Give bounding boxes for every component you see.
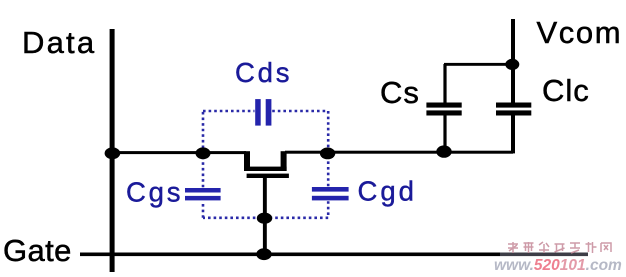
capacitor Cgs (plates)	[185, 188, 221, 200]
svg-text:Cds: Cds	[235, 57, 292, 88]
wire: Vcom vertical lead	[511, 19, 515, 153]
svg-text:Vcom: Vcom	[537, 15, 623, 50]
capacitor Cds (plates)	[255, 99, 271, 126]
wire: Data bus line (vertical)	[110, 29, 115, 272]
capacitor Cgd (plates)	[312, 187, 349, 200]
svg-text:Cs: Cs	[380, 75, 420, 110]
wire: Gate bus line (horizontal)	[80, 253, 500, 257]
capacitor Clc	[496, 103, 531, 116]
node: Data / pixel row junction	[105, 147, 121, 159]
svg-text:Cgd: Cgd	[358, 176, 417, 207]
node: Cgs / source junction	[196, 147, 211, 159]
node: Cs bottom junction	[436, 145, 451, 157]
svg-text:Gate: Gate	[3, 233, 72, 268]
node: Cgd / drain junction	[320, 148, 335, 160]
transistor TFT (thin film transistor)	[244, 151, 289, 178]
svg-text:www.520101.com: www.520101.com	[494, 257, 622, 272]
svg-text:Cgs: Cgs	[126, 176, 183, 207]
capacitor Cs	[426, 64, 461, 152]
watermark: chinese site name (stylized glyph marks)	[508, 242, 611, 253]
wire: Vcom node to Cs top	[444, 63, 513, 66]
node: gate lead / dotted boundary crossing	[257, 213, 272, 224]
parasitic coupling boundary (blue dotted box)	[203, 111, 328, 218]
wire: TFT drain to storage node	[285, 151, 513, 154]
wire: pixel row (Data node to TFT source)	[112, 151, 246, 154]
wire: TFT gate lead (to Gate bus)	[263, 178, 267, 256]
svg-text:Data: Data	[22, 25, 96, 60]
node: gate lead / Gate bus junction	[256, 248, 271, 260]
node: Vcom / Cs top junction	[505, 59, 519, 70]
svg-text:Clc: Clc	[542, 73, 590, 108]
wire: Gate bus line (watermark-dimmed tail)	[500, 253, 588, 257]
